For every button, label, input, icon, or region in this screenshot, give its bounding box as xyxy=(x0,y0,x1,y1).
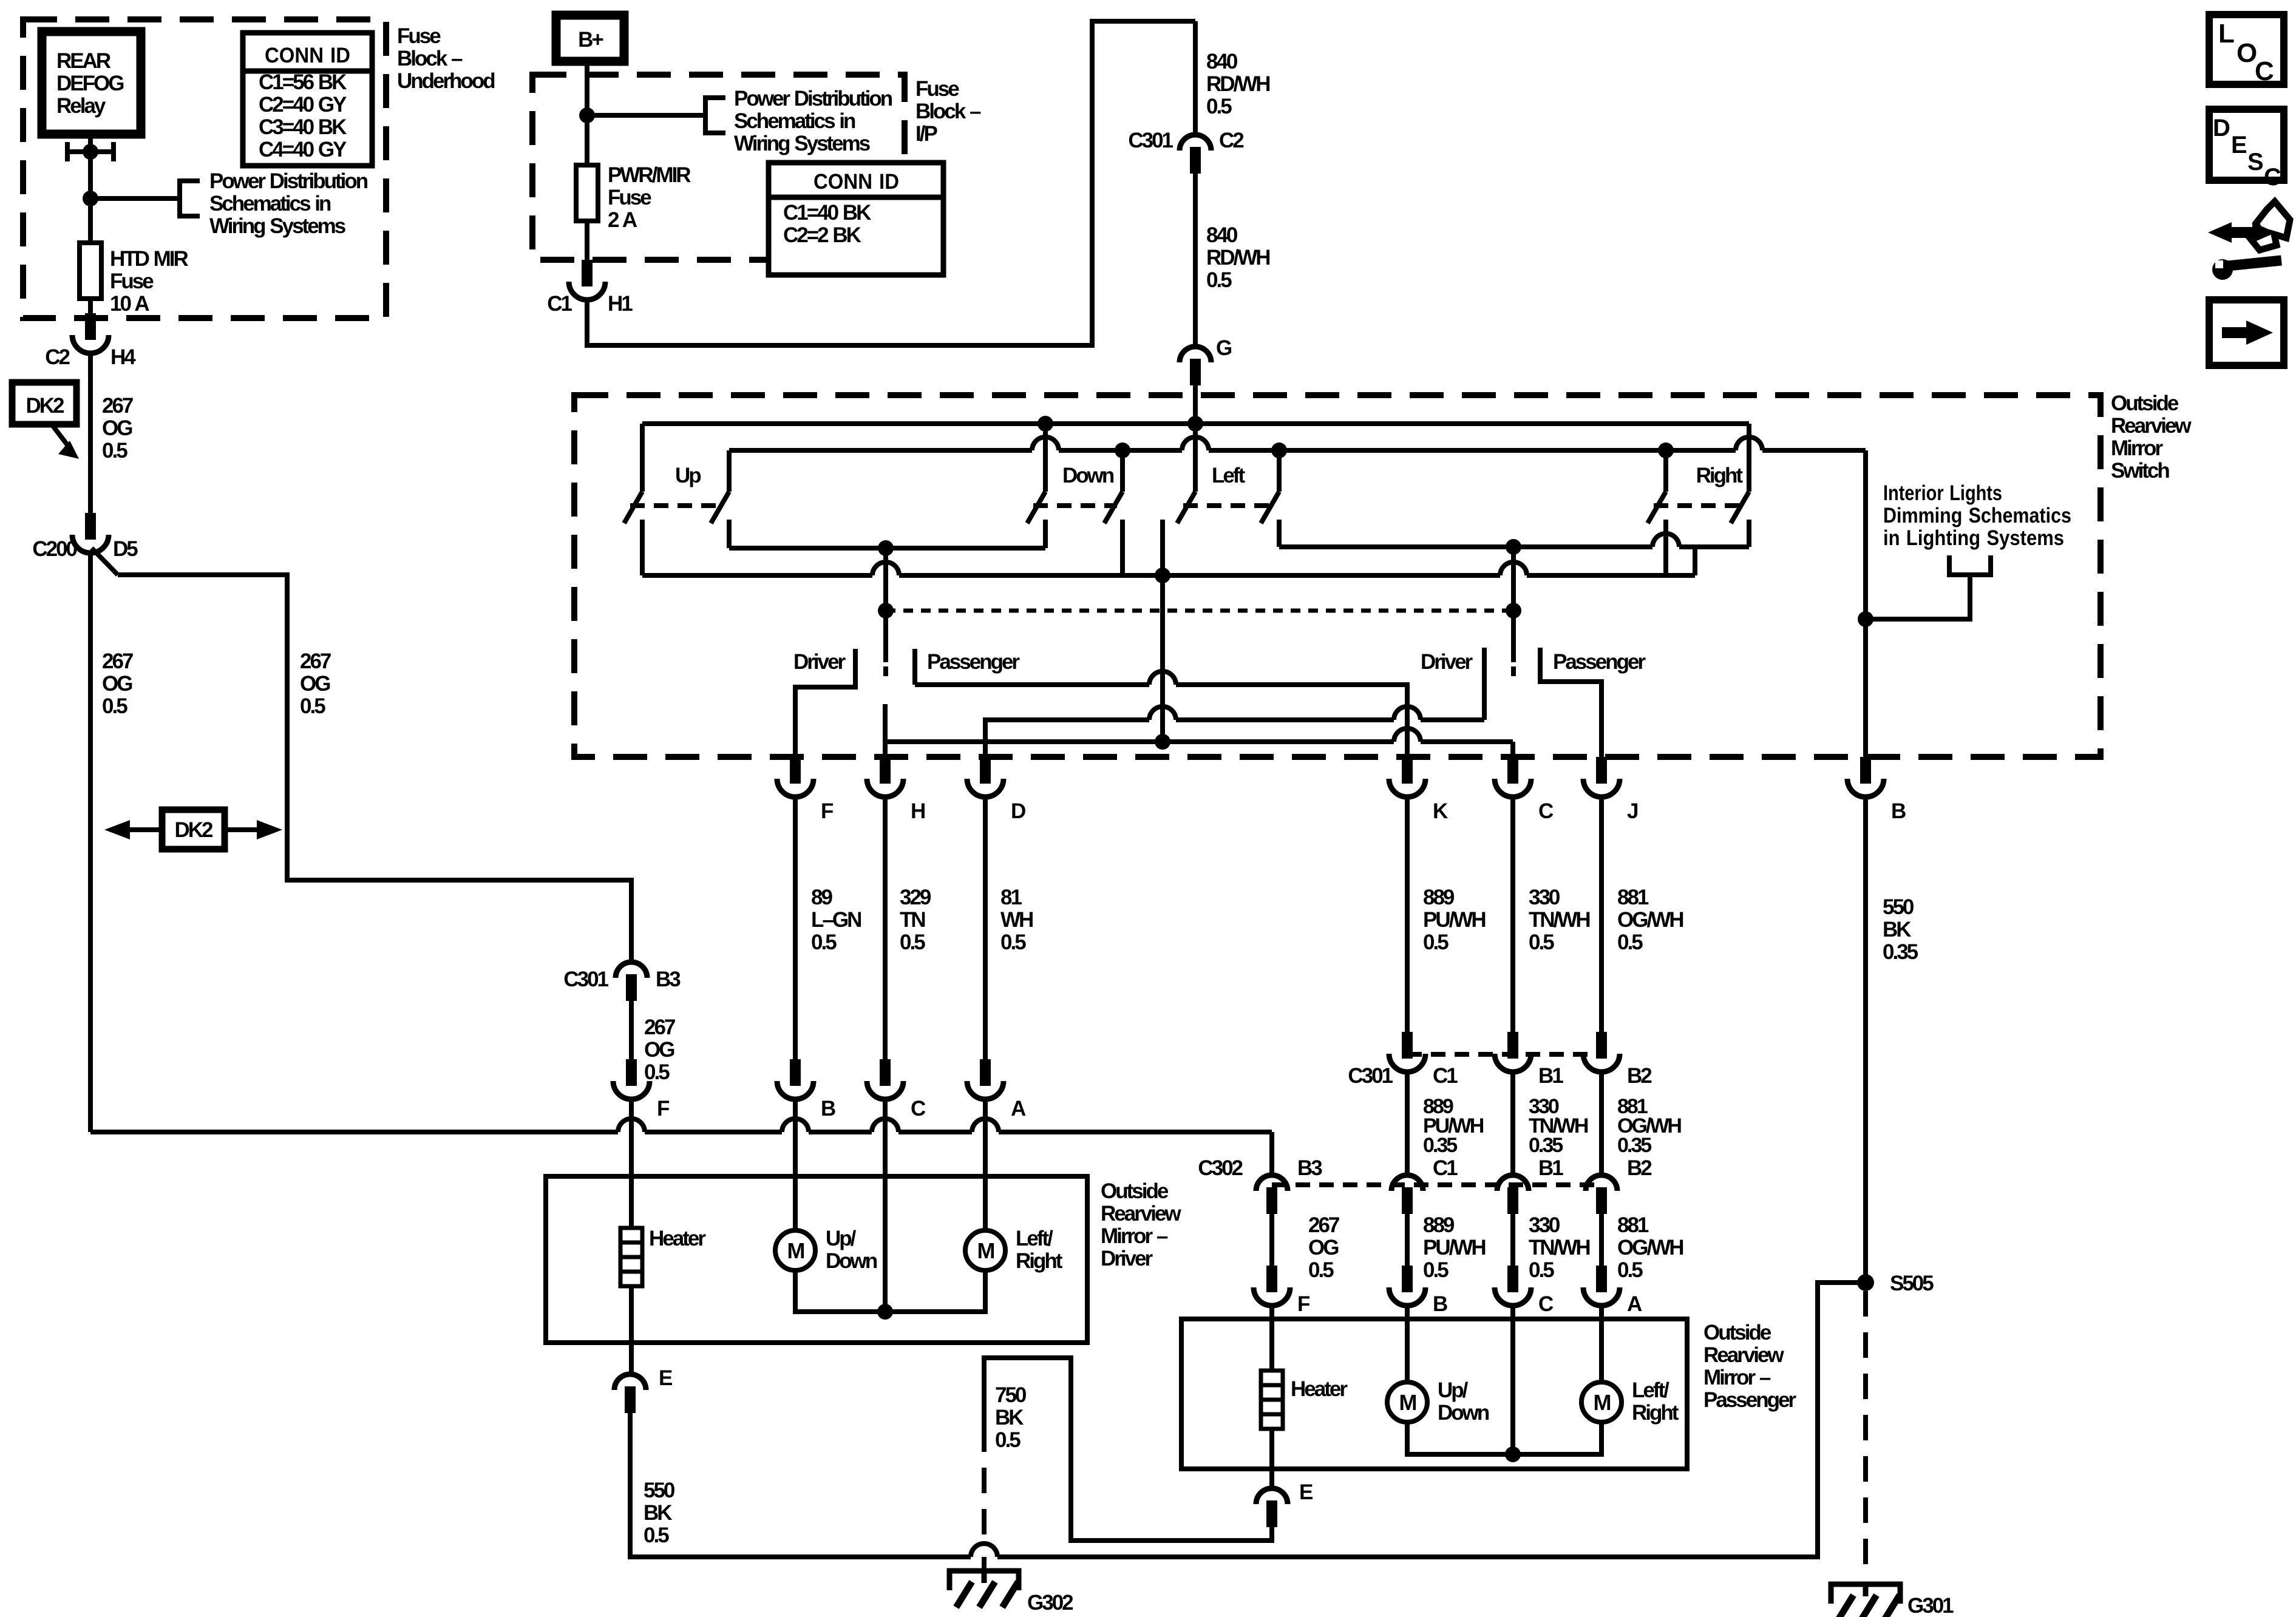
hop L2 over Left-left xyxy=(1182,437,1209,450)
Down switch right stub xyxy=(1120,450,1125,492)
hop L2 over Down-left xyxy=(1032,437,1059,450)
fuse block underhood dashed box xyxy=(23,19,386,318)
node driver motor common xyxy=(877,1304,893,1320)
svg-text:550 BK 0.35: 550 BK 0.35 xyxy=(1883,895,1918,964)
wire 267 OG from H4 to C200 xyxy=(88,353,93,513)
svg-text:D: D xyxy=(1011,799,1025,823)
svg-text:Fuse: Fuse xyxy=(397,24,441,48)
svg-text:G301: G301 xyxy=(1907,1594,1954,1617)
power distribution bracket (underhood) xyxy=(180,178,200,219)
svg-text:B+: B+ xyxy=(578,28,603,52)
CONN ID table (underhood) xyxy=(243,33,372,166)
outside rearview mirror passenger box xyxy=(1181,1319,1687,1469)
svg-text:Block –: Block – xyxy=(397,47,463,70)
connector mirror switch pin D xyxy=(980,757,991,784)
svg-text:C1: C1 xyxy=(1433,1064,1458,1088)
svg-text:F: F xyxy=(821,799,834,823)
Right switch left blade xyxy=(1648,492,1666,523)
connector driver mirror pin A xyxy=(980,1059,991,1086)
connector C1 pin H1 xyxy=(582,260,593,286)
svg-text:G: G xyxy=(1216,336,1232,360)
connector C302 pin B3 xyxy=(1256,1175,1288,1191)
Left switch right blade xyxy=(1261,492,1279,523)
node L2 Right-left xyxy=(1658,442,1674,458)
hop long wire over A column xyxy=(972,1119,999,1132)
DK2 arrow 2 right shaft xyxy=(225,827,258,832)
svg-text:Heater: Heater xyxy=(1291,1377,1348,1401)
svg-text:M: M xyxy=(1594,1390,1611,1415)
outside rearview mirror switch dashed box xyxy=(574,395,2101,757)
svg-text:Block –: Block – xyxy=(915,100,981,123)
svg-text:C1=56 BK: C1=56 BK xyxy=(259,70,347,94)
svg-text:CONN ID: CONN ID xyxy=(265,44,350,67)
C302 housing dashed xyxy=(1272,1182,1601,1187)
wire A into driver mirror xyxy=(983,1099,988,1176)
Left switch right bottom stub xyxy=(1277,520,1282,547)
svg-text:Relay: Relay xyxy=(56,94,106,118)
wire C into driver mirror xyxy=(883,1099,888,1176)
Down switch right blade xyxy=(1104,492,1123,523)
svg-text:C302: C302 xyxy=(1198,1156,1243,1180)
svg-text:F: F xyxy=(657,1097,670,1120)
wire branch diagonal from D5 xyxy=(92,548,118,575)
connector passenger mirror pin A xyxy=(1596,1266,1607,1292)
svg-text:L: L xyxy=(2218,19,2234,49)
passenger 750 BK dashed portion xyxy=(982,1426,987,1544)
node splice to power distribution xyxy=(83,191,98,206)
passenger heater wire top xyxy=(1269,1319,1274,1371)
Left switch left bottom stub xyxy=(1160,520,1165,575)
svg-text:DK2: DK2 xyxy=(25,394,64,418)
svg-text:B1: B1 xyxy=(1538,1064,1563,1088)
svg-text:M: M xyxy=(977,1238,994,1263)
fuse block I/P dashed box xyxy=(532,75,905,260)
svg-text:Interior Lights: Interior Lights xyxy=(1883,481,2002,505)
DK2 arrow 2 right head xyxy=(257,820,282,839)
DK2 arrow 1 head xyxy=(58,441,79,459)
svg-text:C4=40 GY: C4=40 GY xyxy=(259,138,347,161)
node interior lights tap xyxy=(1858,611,1873,627)
wire 840 RD/WH lower xyxy=(1193,174,1198,347)
wire into passenger connector x=2318 xyxy=(1405,1214,1410,1266)
wire branch to C301 B3 xyxy=(118,575,631,962)
svg-text:E: E xyxy=(659,1366,672,1390)
driver motor common wire xyxy=(795,1270,985,1312)
svg-text:B3: B3 xyxy=(1297,1156,1322,1180)
relay K: REAR DEFOG Relay box xyxy=(42,32,141,134)
driver mirror heater xyxy=(620,1228,642,1286)
connector driver mirror pin E xyxy=(614,1374,646,1390)
left selector Driver throw xyxy=(795,649,855,757)
LOC legend box xyxy=(2209,15,2284,84)
svg-text:B2: B2 xyxy=(1627,1064,1652,1088)
connector C301 pin B2 xyxy=(1596,1032,1607,1059)
Down switch left stub xyxy=(1043,424,1048,492)
node L2 Down-right xyxy=(1115,442,1130,458)
Right switch right stub xyxy=(1747,424,1751,492)
svg-text:J: J xyxy=(1627,799,1638,823)
node L1 down-left feed xyxy=(1038,416,1053,432)
node L2 Left-right xyxy=(1271,442,1287,458)
Down contact dashed xyxy=(1033,503,1117,508)
selector linkage dotted line xyxy=(886,609,1513,613)
svg-text:Mirror: Mirror xyxy=(2111,436,2164,460)
fuse HTD MIR 10A xyxy=(80,243,101,299)
svg-text:C: C xyxy=(2255,56,2274,86)
Down switch right bottom stub xyxy=(1120,520,1125,575)
wire to power distribution bracket I/P xyxy=(587,113,705,118)
C pole tip dash xyxy=(1511,666,1516,676)
connector C2 pin H4 xyxy=(85,313,96,340)
node to power distribution (I/P) xyxy=(579,107,595,123)
DK2 arrow 1 shaft xyxy=(52,424,69,447)
passenger motor B wire xyxy=(1405,1319,1410,1382)
wire into passenger connector x=2095 xyxy=(1269,1214,1274,1266)
svg-text:Fuse: Fuse xyxy=(915,77,959,101)
bus L5 segments xyxy=(1279,544,1749,549)
svg-text:Left: Left xyxy=(1212,464,1246,487)
driver up/down motor xyxy=(775,1230,815,1270)
wire 840 RD/WH upper xyxy=(1193,21,1198,135)
svg-text:REAR: REAR xyxy=(56,49,111,73)
passenger motor common wire xyxy=(1407,1422,1601,1454)
junction on relay terminal xyxy=(83,144,98,160)
node passenger motor common xyxy=(1505,1446,1521,1462)
passenger C wire xyxy=(1510,1319,1515,1454)
svg-text:Mirror –: Mirror – xyxy=(1101,1224,1168,1248)
wire 89 L-GN xyxy=(793,797,798,1059)
svg-text:Passenger: Passenger xyxy=(1553,650,1646,674)
svg-text:Rearview: Rearview xyxy=(1101,1202,1181,1225)
connector switch pin G xyxy=(1180,347,1211,362)
Left-LB feedthrough wire xyxy=(1160,575,1165,742)
svg-text:DK2: DK2 xyxy=(174,818,213,842)
switch output bus L2 segments xyxy=(729,448,1866,453)
hop long wire over B column xyxy=(782,1119,809,1132)
svg-text:B2: B2 xyxy=(1627,1156,1652,1180)
connector passenger mirror pin C xyxy=(1507,1266,1518,1292)
DK2 arrow 2 left shaft xyxy=(129,827,162,832)
C pole wire xyxy=(1511,547,1516,662)
wire B into passenger mirror xyxy=(1405,1306,1410,1319)
svg-text:B: B xyxy=(821,1097,835,1120)
Up switch left bottom stub xyxy=(640,520,645,575)
connector mirror switch pin C xyxy=(1507,757,1518,784)
wire G into switch xyxy=(1193,385,1198,424)
driver heater wire bottom xyxy=(629,1286,634,1374)
connector C200 pin D5 xyxy=(85,513,96,540)
connector driver mirror pin F xyxy=(626,1059,637,1086)
Right contact dashed xyxy=(1654,503,1744,508)
connector C301 pin C1 xyxy=(1402,1032,1413,1059)
wire 330 TN/WH 0.35 xyxy=(1510,1072,1515,1175)
Down switch left bottom stub xyxy=(1043,520,1048,548)
node H dotted-link xyxy=(878,603,894,619)
svg-text:C: C xyxy=(911,1097,926,1120)
svg-text:K: K xyxy=(1433,799,1448,823)
right selector Driver throw + wire to D xyxy=(985,648,1484,757)
svg-text:C301: C301 xyxy=(1348,1064,1393,1088)
node L5 C tap xyxy=(1506,539,1521,555)
Left switch left blade xyxy=(1177,492,1195,523)
wire 881 OG/WH upper xyxy=(1599,797,1604,1032)
svg-text:Rearview: Rearview xyxy=(2111,414,2192,438)
svg-text:C301: C301 xyxy=(1128,129,1173,152)
driver C wire xyxy=(883,1176,888,1312)
connector mirror switch pin H xyxy=(880,757,891,784)
hop passenger-wire over Left-LB feedthrough xyxy=(1149,671,1176,685)
wire 267 OG below C301 B3 xyxy=(629,1001,634,1059)
svg-text:M: M xyxy=(787,1238,804,1263)
wire 330 TN/WH upper xyxy=(1510,797,1515,1032)
Right switch left bottom stub xyxy=(1663,520,1668,575)
wire relay to fuse xyxy=(88,134,93,243)
wire B+ down xyxy=(585,61,589,165)
svg-text:B: B xyxy=(1891,799,1906,823)
ground G302 xyxy=(949,1571,1019,1607)
wire B into driver mirror xyxy=(793,1099,798,1176)
svg-text:Heater: Heater xyxy=(649,1227,706,1250)
connector mirror switch pin F xyxy=(790,757,801,784)
driver motor B wire xyxy=(793,1176,798,1230)
wire 267 OG long horizontal xyxy=(90,1132,1272,1175)
svg-text:Outside: Outside xyxy=(1101,1179,1169,1203)
Right switch right bottom stub xyxy=(1747,520,1751,547)
driver motor A wire xyxy=(983,1176,988,1230)
hop long wire over F column xyxy=(618,1119,645,1132)
fuse PWR/MIR 2A xyxy=(576,165,598,221)
connector driver mirror pin C xyxy=(880,1059,891,1086)
svg-text:Passenger: Passenger xyxy=(1703,1388,1796,1412)
bus L3 riser to L5 xyxy=(1693,547,1697,575)
svg-text:S505: S505 xyxy=(1890,1272,1934,1295)
Up switch right blade xyxy=(711,492,729,523)
svg-text:Up: Up xyxy=(675,464,701,487)
DESC legend box xyxy=(2209,109,2284,180)
passenger left/right motor xyxy=(1581,1382,1622,1422)
H selector output stub xyxy=(883,704,888,742)
svg-text:H: H xyxy=(911,799,925,823)
Up switch right bottom stub xyxy=(727,520,732,548)
DK2 takeout box 2 xyxy=(162,810,225,849)
C301 housing dashed (lower) xyxy=(1407,1052,1601,1057)
svg-text:D5: D5 xyxy=(113,537,138,561)
svg-text:C2: C2 xyxy=(1219,129,1244,152)
svg-text:H4: H4 xyxy=(110,345,136,369)
passenger up/down motor xyxy=(1387,1382,1427,1422)
svg-text:Outside: Outside xyxy=(2111,392,2179,415)
svg-text:F: F xyxy=(1297,1292,1310,1316)
ground G301 xyxy=(1831,1584,1900,1617)
svg-text:Dimming Schematics: Dimming Schematics xyxy=(1883,504,2071,527)
selector common bus h3 xyxy=(885,739,1513,744)
Up contact dashed xyxy=(630,503,724,508)
svg-text:Right: Right xyxy=(1696,464,1744,487)
wire 889 PU/WH 0.35 xyxy=(1405,1072,1410,1175)
Right switch left stub xyxy=(1663,450,1668,492)
power distribution bracket (I/P) xyxy=(705,95,725,135)
H pin riser xyxy=(883,742,888,757)
svg-text:I/P: I/P xyxy=(915,122,937,146)
svg-text:G302: G302 xyxy=(1027,1591,1073,1615)
hop common bus over K column xyxy=(1394,728,1421,742)
svg-text:C: C xyxy=(1538,1292,1554,1316)
svg-text:C1=40 BK: C1=40 BK xyxy=(783,201,871,225)
svg-text:Down: Down xyxy=(1062,464,1114,487)
svg-text:Mirror –: Mirror – xyxy=(1703,1366,1771,1389)
hop L3 over H pole xyxy=(872,562,899,575)
svg-text:S: S xyxy=(2247,149,2263,175)
B output wire xyxy=(1863,450,1868,757)
H pole wire xyxy=(883,548,888,662)
interior lights wire xyxy=(1866,575,1970,619)
svg-text:H1: H1 xyxy=(608,292,633,316)
connector passenger mirror pin F xyxy=(1266,1266,1277,1292)
H pole tip dash xyxy=(883,666,888,676)
passenger 750 BK wire xyxy=(984,1358,1272,1541)
wire into passenger connector x=2638 xyxy=(1599,1214,1604,1266)
node common bus feedthrough xyxy=(1155,734,1170,750)
battery terminal B+ box xyxy=(556,15,624,61)
driver heater wire top xyxy=(629,1176,634,1228)
hop D-wire over K column xyxy=(1394,707,1421,720)
wire F into driver mirror xyxy=(629,1099,634,1176)
wire 889 PU/WH upper xyxy=(1405,797,1410,1032)
wire 881 OG/WH 0.35 xyxy=(1599,1072,1604,1175)
svg-text:Driver: Driver xyxy=(1421,650,1473,674)
svg-text:Driver: Driver xyxy=(793,650,846,674)
DK2 takeout box 1 xyxy=(12,382,76,424)
wire into passenger connector x=2492 xyxy=(1510,1214,1515,1266)
svg-text:B3: B3 xyxy=(656,968,681,991)
svg-text:E: E xyxy=(1299,1480,1313,1504)
svg-text:C: C xyxy=(2264,164,2281,191)
connector C302 pin B2 xyxy=(1586,1175,1617,1191)
Right switch right blade xyxy=(1731,492,1749,523)
wire 81 WH xyxy=(983,797,988,1059)
hop D-wire over Left-LB feedthrough xyxy=(1149,707,1176,720)
driver 550 BK wire xyxy=(630,1283,1866,1557)
right selector Passenger throw + wire to J xyxy=(1540,648,1601,757)
Down switch left blade xyxy=(1027,492,1045,523)
wire to power distribution bracket xyxy=(90,196,180,201)
Up switch right stub xyxy=(727,450,732,492)
next-page arrow xyxy=(2222,327,2247,338)
hop L3 over C pole xyxy=(1500,562,1527,575)
driver left/right motor xyxy=(965,1230,1005,1270)
troubleshooting icon (arrow and wrench) xyxy=(2208,202,2290,280)
C pin riser xyxy=(1510,742,1515,757)
Left switch left stub (feed) xyxy=(1193,424,1198,492)
splice S505 xyxy=(1857,1274,1874,1291)
DK2 arrow 2 left head xyxy=(104,820,130,839)
connector C301 pin B1 xyxy=(1507,1032,1518,1059)
svg-text:Outside: Outside xyxy=(1703,1321,1771,1344)
node L4 H tap xyxy=(878,540,894,556)
svg-text:C200: C200 xyxy=(32,537,77,561)
svg-text:O: O xyxy=(2237,38,2257,68)
svg-text:C1: C1 xyxy=(1433,1156,1458,1180)
svg-text:DEFOG: DEFOG xyxy=(56,72,124,95)
connector C302 pin C1 xyxy=(1391,1175,1423,1191)
wire 267 OG down from D5 xyxy=(88,553,93,1132)
connector driver mirror pin B xyxy=(790,1059,801,1086)
svg-text:Rearview: Rearview xyxy=(1703,1343,1784,1367)
switch feed bus L1 xyxy=(642,421,1749,426)
next-page arrow box xyxy=(2209,300,2284,365)
svg-text:in Lighting Systems: in Lighting Systems xyxy=(1883,526,2064,550)
connector passenger mirror pin E xyxy=(1256,1488,1288,1504)
wire 329 TN xyxy=(883,797,888,1059)
svg-text:CONN ID: CONN ID xyxy=(813,170,899,194)
connector passenger mirror pin B xyxy=(1402,1266,1413,1292)
node L1 main feed xyxy=(1187,416,1203,432)
svg-text:C2=2 BK: C2=2 BK xyxy=(783,223,861,247)
svg-text:D: D xyxy=(2213,115,2230,141)
svg-text:M: M xyxy=(1399,1390,1416,1415)
wire A into passenger mirror xyxy=(1599,1306,1604,1319)
left selector Passenger throw + wire to K xyxy=(915,649,1407,757)
svg-text:A: A xyxy=(1011,1097,1026,1120)
connector mirror switch pin K xyxy=(1402,757,1413,784)
connector C302 pin B1 xyxy=(1497,1175,1529,1191)
relay output terminal bracket xyxy=(67,142,114,161)
svg-text:C: C xyxy=(1538,799,1554,823)
Left switch right stub xyxy=(1277,450,1282,492)
connector C301 pin B3 xyxy=(616,962,647,978)
passenger motor A wire xyxy=(1599,1319,1604,1382)
svg-text:Switch: Switch xyxy=(2111,459,2169,483)
interior lights bracket xyxy=(1949,555,1991,575)
wire C into passenger mirror xyxy=(1510,1306,1515,1319)
hop L2 over Right-right xyxy=(1736,437,1762,450)
S505 to G301 dashed xyxy=(1863,1291,1868,1578)
G302 ground lead xyxy=(982,1557,987,1572)
wire fuse to C1/H1 xyxy=(585,221,589,260)
connector mirror switch pin B xyxy=(1860,757,1871,784)
CONN ID table (I/P) xyxy=(769,163,943,275)
svg-text:Underhood: Underhood xyxy=(397,69,495,93)
svg-text:C301: C301 xyxy=(563,968,608,991)
connector mirror switch pin J xyxy=(1596,757,1607,784)
bus L3 segments xyxy=(642,573,1695,578)
svg-text:Passenger: Passenger xyxy=(927,650,1020,674)
wire fuse to C2/H4 pin xyxy=(88,299,93,313)
Left contact dashed xyxy=(1183,503,1274,508)
svg-text:B: B xyxy=(1433,1292,1447,1316)
outside rearview mirror driver box xyxy=(546,1176,1087,1343)
hop long wire over C column xyxy=(872,1119,898,1132)
connector C301 pin C2 xyxy=(1180,135,1211,151)
connector ground splice G302 arc xyxy=(971,1544,997,1557)
wire F into passenger mirror xyxy=(1269,1306,1274,1319)
bus L4 xyxy=(729,546,1045,551)
svg-text:A: A xyxy=(1627,1292,1642,1316)
hop L5 over Right-LB xyxy=(1652,534,1679,547)
node L3 Left-LB xyxy=(1155,568,1170,583)
Up switch left stub xyxy=(640,424,645,492)
svg-text:C1: C1 xyxy=(547,292,572,316)
svg-text:C2: C2 xyxy=(45,345,70,369)
svg-text:B1: B1 xyxy=(1538,1156,1563,1180)
node C dotted-link xyxy=(1506,603,1521,619)
wire H1 to riser xyxy=(587,21,1195,345)
wire 550 BK 0.35 xyxy=(1863,797,1868,1283)
svg-text:Driver: Driver xyxy=(1101,1247,1153,1270)
passenger mirror heater xyxy=(1261,1371,1283,1429)
svg-text:C2=40 GY: C2=40 GY xyxy=(259,93,347,117)
svg-text:C3=40 BK: C3=40 BK xyxy=(259,115,347,139)
